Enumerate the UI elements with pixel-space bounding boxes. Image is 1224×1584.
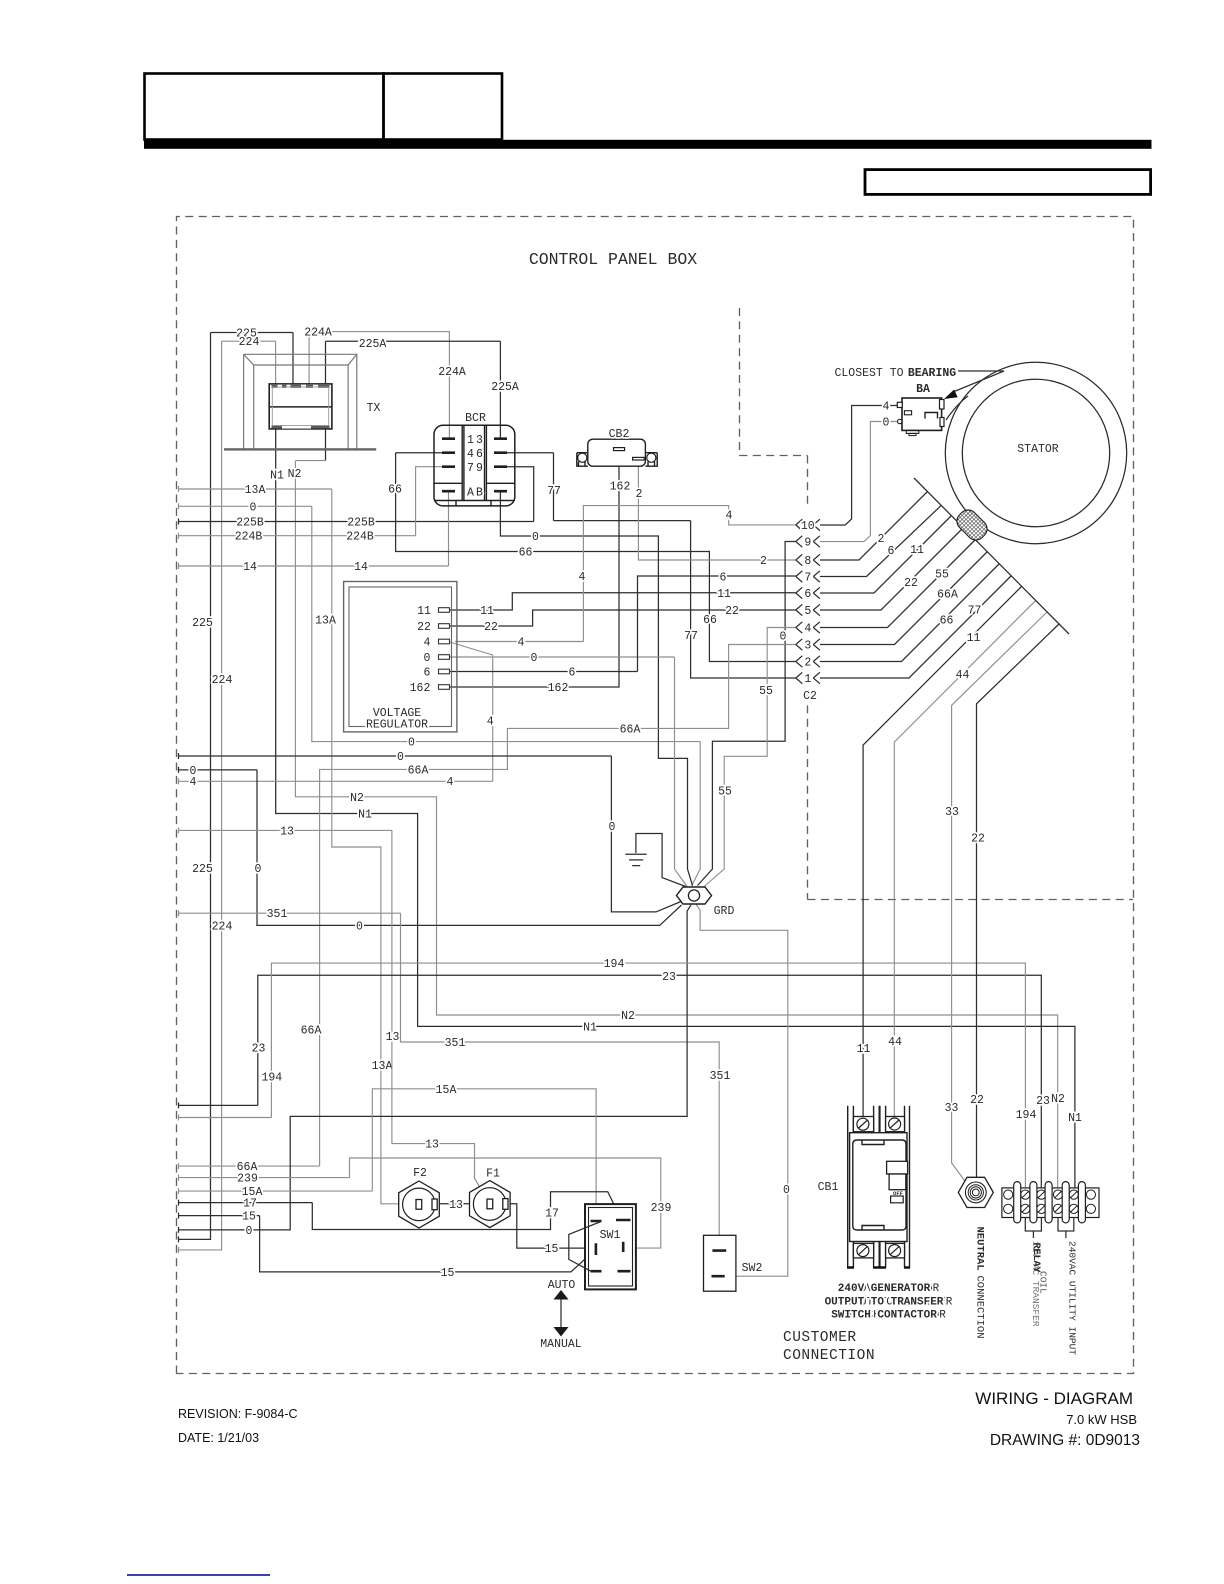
svg-text:162: 162 xyxy=(610,480,631,493)
svg-text:N1: N1 xyxy=(583,1021,597,1034)
svg-text:DATE: 1/21/03: DATE: 1/21/03 xyxy=(178,1431,259,1445)
svg-text:66: 66 xyxy=(940,615,954,628)
svg-text:23: 23 xyxy=(252,1043,266,1056)
svg-text:13: 13 xyxy=(386,1031,400,1044)
svg-text:SW1: SW1 xyxy=(600,1229,621,1242)
svg-text:77: 77 xyxy=(547,485,561,498)
svg-text:0: 0 xyxy=(608,821,615,834)
svg-text:225B: 225B xyxy=(347,517,375,530)
svg-text:0: 0 xyxy=(532,531,539,544)
empty title-block box top right xyxy=(865,170,1151,195)
svg-text:OUTPUT TO TRANSFER: OUTPUT TO TRANSFER xyxy=(825,1297,944,1309)
svg-text:6: 6 xyxy=(424,667,431,680)
wire net 14 xyxy=(178,491,449,574)
svg-text:240V GENERATOR: 240V GENERATOR xyxy=(838,1283,931,1295)
svg-text:CLOSEST TO: CLOSEST TO xyxy=(834,367,903,380)
svg-text:GRD: GRD xyxy=(714,905,735,918)
svg-text:224A: 224A xyxy=(438,366,466,379)
svg-text:RELAY: RELAY xyxy=(1030,1243,1041,1273)
shaft arc near bearing xyxy=(946,396,968,420)
circuit breaker CB1 xyxy=(847,1106,910,1268)
svg-text:9: 9 xyxy=(804,537,811,550)
svg-text:15A: 15A xyxy=(436,1084,457,1097)
connector C2 pin numbers xyxy=(801,520,815,686)
stator fan wire 2 xyxy=(820,492,928,561)
header table box 2 xyxy=(384,74,503,140)
wire net 13 xyxy=(178,825,488,1200)
svg-text:4: 4 xyxy=(883,401,890,414)
svg-text:77: 77 xyxy=(684,630,698,643)
svg-text:13: 13 xyxy=(425,1139,439,1152)
svg-text:2: 2 xyxy=(878,533,885,546)
wire net 0 regulator bus xyxy=(178,501,700,886)
svg-text:11: 11 xyxy=(910,544,924,557)
neutral connection stud (hex) xyxy=(958,1177,993,1207)
svg-text:17: 17 xyxy=(545,1208,559,1221)
svg-text:66: 66 xyxy=(703,614,717,627)
svg-text:10: 10 xyxy=(801,520,815,533)
svg-text:194: 194 xyxy=(604,958,625,971)
ground symbol xyxy=(625,834,687,888)
svg-text:N1: N1 xyxy=(1068,1112,1082,1125)
wire net 351 xyxy=(178,908,730,1250)
fuse F2 xyxy=(399,1181,440,1228)
svg-text:66A: 66A xyxy=(408,764,429,777)
svg-text:13A: 13A xyxy=(315,614,336,627)
svg-text:CB1: CB1 xyxy=(818,1181,839,1194)
svg-text:224A: 224A xyxy=(304,327,332,340)
wire net N2 xyxy=(288,461,1065,1190)
wire net 0 lower ground run xyxy=(178,765,682,934)
wire net 239 xyxy=(178,1158,671,1248)
wire net 225 xyxy=(178,328,293,1243)
svg-text:225A: 225A xyxy=(359,338,387,351)
wire net 55 xyxy=(703,628,796,888)
svg-text:13: 13 xyxy=(449,1199,463,1212)
svg-text:0: 0 xyxy=(783,1184,790,1197)
svg-text:0: 0 xyxy=(424,652,431,665)
transformer TX base line xyxy=(224,448,376,450)
wire net 15A xyxy=(178,1084,596,1221)
wire net 0 from BCR pin B xyxy=(500,491,692,885)
connector CB2 body xyxy=(577,439,657,466)
svg-text:6: 6 xyxy=(569,667,576,680)
CB1 caption ghost print xyxy=(834,1283,953,1322)
BCR pin number labels xyxy=(467,434,483,500)
wire net 224B xyxy=(178,467,442,544)
svg-text:11: 11 xyxy=(717,588,731,601)
svg-text:CUSTOMER: CUSTOMER xyxy=(783,1330,857,1346)
svg-text:11: 11 xyxy=(417,605,431,618)
svg-text:22: 22 xyxy=(417,621,431,634)
wire net 23 xyxy=(178,971,1050,1190)
svg-text:22: 22 xyxy=(971,833,985,846)
svg-text:351: 351 xyxy=(710,1070,731,1083)
svg-text:33: 33 xyxy=(945,806,959,819)
svg-text:225A: 225A xyxy=(491,381,519,394)
svg-text:22: 22 xyxy=(484,621,498,634)
svg-text:17: 17 xyxy=(243,1198,257,1211)
svg-text:SWITCH CONTACTOR: SWITCH CONTACTOR xyxy=(831,1310,937,1322)
svg-text:6: 6 xyxy=(720,572,727,585)
wire net 224 xyxy=(178,336,276,1253)
svg-text:3: 3 xyxy=(804,640,811,653)
svg-text:C2: C2 xyxy=(803,690,817,703)
svg-text:N2: N2 xyxy=(288,468,302,481)
svg-text:225B: 225B xyxy=(236,517,264,530)
svg-text:F1: F1 xyxy=(486,1168,500,1181)
wire net 6 xyxy=(450,572,796,680)
svg-text:224: 224 xyxy=(212,674,233,687)
wire net 0 brush assembly BA xyxy=(820,417,898,542)
wire net 17 xyxy=(178,1192,622,1230)
svg-text:BA: BA xyxy=(916,383,930,396)
svg-text:4: 4 xyxy=(190,776,197,789)
wire net 0 to ground symbol xyxy=(178,751,681,912)
svg-text:6: 6 xyxy=(888,545,895,558)
svg-text:0: 0 xyxy=(408,737,415,750)
terminal block bracket relay coil xyxy=(1025,1218,1041,1239)
svg-text:4: 4 xyxy=(804,623,811,636)
wire net 224A xyxy=(304,327,466,439)
svg-text:0: 0 xyxy=(255,863,262,876)
AUTO / MANUAL selector arrows xyxy=(540,1279,582,1351)
wire net 11 xyxy=(450,588,796,618)
stator fan wire 6 xyxy=(820,505,941,576)
terminal block bracket utility input xyxy=(1058,1218,1074,1239)
svg-text:MANUAL: MANUAL xyxy=(540,1338,582,1351)
svg-text:SW2: SW2 xyxy=(742,1262,763,1275)
svg-text:CONNECTION: CONNECTION xyxy=(783,1348,875,1364)
svg-text:4: 4 xyxy=(518,637,525,650)
svg-text:NEUTRAL: NEUTRAL xyxy=(974,1227,986,1271)
svg-text:15: 15 xyxy=(242,1211,256,1224)
svg-text:15: 15 xyxy=(545,1243,559,1256)
decorative blue underline xyxy=(127,1574,270,1576)
svg-text:AUTO: AUTO xyxy=(548,1279,576,1292)
svg-text:351: 351 xyxy=(445,1037,466,1050)
svg-text:4: 4 xyxy=(467,448,474,461)
svg-text:6: 6 xyxy=(804,588,811,601)
svg-text:13A: 13A xyxy=(372,1060,393,1073)
svg-text:B: B xyxy=(476,487,483,500)
transformer TX frame xyxy=(244,354,357,449)
wire net 15 bus xyxy=(178,1211,596,1280)
note CLOSEST TO BEARING with arrow xyxy=(834,367,1004,399)
svg-text:15: 15 xyxy=(441,1267,455,1280)
svg-text:7: 7 xyxy=(804,572,811,585)
wire net 162 xyxy=(450,451,631,696)
svg-text:44: 44 xyxy=(956,669,970,682)
stator outer ring xyxy=(945,362,1126,543)
svg-text:11: 11 xyxy=(967,632,981,645)
svg-text:2: 2 xyxy=(636,488,643,501)
svg-text:33: 33 xyxy=(945,1102,959,1115)
svg-text:13: 13 xyxy=(280,825,294,838)
CB1 caption 240V GENERATOR OUTPUT TO TRANSFER SWITCH CONTACTOR xyxy=(825,1283,944,1322)
svg-text:11: 11 xyxy=(480,605,494,618)
cable entry blob (hatched grommet) xyxy=(953,506,990,543)
wire net 0 ground to SW2 xyxy=(696,904,791,1277)
svg-text:4: 4 xyxy=(487,716,494,729)
svg-text:COIL: COIL xyxy=(1038,1271,1049,1294)
svg-text:0: 0 xyxy=(356,920,363,933)
svg-text:44: 44 xyxy=(888,1036,902,1049)
svg-text:F2: F2 xyxy=(413,1167,427,1180)
wire net 225A xyxy=(326,338,519,461)
terminal block TB xyxy=(1002,1182,1099,1223)
wire net 2 xyxy=(636,460,796,568)
voltage regulator U1 box xyxy=(344,582,457,732)
stator inner ring xyxy=(962,379,1109,526)
svg-text:4: 4 xyxy=(424,637,431,650)
svg-text:1: 1 xyxy=(467,434,474,447)
wire net 15 fuse F1 to SW1 xyxy=(508,1204,590,1256)
svg-text:351: 351 xyxy=(267,908,288,921)
svg-text:14: 14 xyxy=(243,561,257,574)
svg-text:224B: 224B xyxy=(235,531,263,544)
svg-text:225: 225 xyxy=(192,863,213,876)
wire net 22 stator to neutral stud xyxy=(970,624,1059,1183)
svg-text:0: 0 xyxy=(883,417,890,430)
wire net 66 xyxy=(388,453,796,662)
label CUSTOMER CONNECTION xyxy=(783,1330,875,1364)
svg-text:239: 239 xyxy=(237,1173,258,1186)
stator fan wire 55 xyxy=(820,540,976,628)
svg-text:162: 162 xyxy=(410,682,431,695)
svg-text:55: 55 xyxy=(718,786,732,799)
svg-text:N1: N1 xyxy=(358,809,372,822)
svg-text:66A: 66A xyxy=(301,1024,322,1037)
voltage regulator pin numbers xyxy=(410,605,431,695)
dashed notch boundary around stator xyxy=(740,308,1134,900)
svg-text:7.0 kW HSB: 7.0 kW HSB xyxy=(1066,1412,1137,1427)
connector C2 column: chevrons xyxy=(796,519,820,684)
stator fan wire 22 xyxy=(820,528,964,611)
BCR pin dashes right column (3,6,9,B) xyxy=(494,439,507,492)
SW1 pin dashes xyxy=(591,1220,631,1271)
svg-text:4: 4 xyxy=(726,510,733,523)
svg-text:8: 8 xyxy=(804,555,811,568)
svg-text:13A: 13A xyxy=(245,484,266,497)
svg-text:REVISION: F-9084-C: REVISION: F-9084-C xyxy=(178,1407,297,1421)
wire net 13 fuse link F2-F1 xyxy=(437,1199,487,1212)
svg-text:194: 194 xyxy=(261,1072,282,1085)
svg-text:A: A xyxy=(467,487,474,500)
wire net 11 stator to CB1 xyxy=(857,586,1022,1118)
svg-text:0: 0 xyxy=(250,501,257,514)
ground node GRD hex nut xyxy=(677,887,712,904)
svg-text:1: 1 xyxy=(804,673,811,686)
stator fan wire 11 xyxy=(820,516,952,594)
svg-text:55: 55 xyxy=(759,685,773,698)
svg-text:N2: N2 xyxy=(350,792,364,805)
header table box 1 xyxy=(145,74,384,140)
SW1 internal linkage xyxy=(569,1222,601,1272)
svg-text:BCR: BCR xyxy=(465,412,486,425)
harness cable line into stator xyxy=(914,478,1069,634)
wire net 13A xyxy=(178,484,416,1204)
BCR pin dashes left column (1,4,7,A) xyxy=(442,439,455,492)
svg-text:22: 22 xyxy=(970,1094,984,1107)
svg-text:REGULATOR: REGULATOR xyxy=(366,719,428,732)
svg-text:N2: N2 xyxy=(621,1010,635,1023)
svg-text:3: 3 xyxy=(476,434,483,447)
svg-text:0: 0 xyxy=(531,652,538,665)
svg-text:239: 239 xyxy=(651,1202,672,1215)
label transfer relay coil (rotated, double printed) xyxy=(1030,1241,1049,1327)
switch SW1 body xyxy=(585,1204,636,1289)
svg-text:11: 11 xyxy=(857,1043,871,1056)
svg-text:22: 22 xyxy=(904,577,918,590)
svg-text:6: 6 xyxy=(476,448,483,461)
svg-text:55: 55 xyxy=(935,569,949,582)
svg-text:22: 22 xyxy=(725,605,739,618)
svg-text:66A: 66A xyxy=(620,723,641,736)
svg-text:N1: N1 xyxy=(270,469,284,482)
svg-text:224: 224 xyxy=(212,921,233,934)
svg-text:4: 4 xyxy=(579,571,586,584)
svg-text:STATOR: STATOR xyxy=(1017,443,1059,456)
wire net 0 from connector C2 pin 9 xyxy=(698,542,796,886)
wire net 22 xyxy=(450,605,796,634)
wire net 44 stator to CB1 xyxy=(888,600,1036,1118)
stator fan wire 66 xyxy=(820,564,1000,662)
svg-text:0: 0 xyxy=(397,751,404,764)
wire net 4 brush assembly BA xyxy=(820,401,897,526)
svg-text:N2: N2 xyxy=(1051,1093,1065,1106)
wire net 225B xyxy=(178,467,534,530)
svg-text:BEARING: BEARING xyxy=(908,367,956,380)
SW2 pin dashes xyxy=(712,1251,727,1277)
svg-text:66: 66 xyxy=(519,547,533,560)
transformer TX winding xyxy=(269,384,332,429)
svg-text:0: 0 xyxy=(780,630,787,643)
svg-text:TX: TX xyxy=(367,402,381,415)
svg-text:14: 14 xyxy=(354,561,368,574)
switch SW2 body xyxy=(704,1235,736,1291)
svg-text:WIRING - DIAGRAM: WIRING - DIAGRAM xyxy=(975,1389,1133,1408)
wire net 4 xyxy=(178,506,796,789)
svg-text:224B: 224B xyxy=(346,531,374,544)
svg-text:CONNECTION: CONNECTION xyxy=(974,1276,986,1339)
control panel box dashed boundary xyxy=(177,217,1134,1374)
svg-text:77: 77 xyxy=(968,605,982,618)
svg-text:DRAWING #: 0D9013: DRAWING #: 0D9013 xyxy=(990,1432,1140,1449)
svg-text:240VAC UTILITY INPUT: 240VAC UTILITY INPUT xyxy=(1067,1241,1078,1355)
wire net 0 ground to lower-left xyxy=(178,905,691,1238)
voltage regulator pin terminals xyxy=(439,608,450,690)
svg-text:4: 4 xyxy=(447,776,454,789)
svg-text:194: 194 xyxy=(1016,1109,1037,1122)
wire net 33 stator to neutral stud xyxy=(945,612,1048,1185)
svg-text:9: 9 xyxy=(476,462,483,475)
svg-text:CONTROL PANEL BOX: CONTROL PANEL BOX xyxy=(529,250,697,269)
svg-text:0: 0 xyxy=(190,765,197,778)
svg-text:0: 0 xyxy=(246,1225,253,1238)
header thick rule bar xyxy=(144,140,1152,149)
svg-text:225: 225 xyxy=(192,617,213,630)
wire net N1 xyxy=(270,429,1082,1190)
fuse F1 xyxy=(470,1181,511,1228)
svg-text:66: 66 xyxy=(388,483,402,496)
stator fan wire 77 xyxy=(820,576,1012,679)
svg-text:7: 7 xyxy=(467,462,474,475)
wire net 66A xyxy=(178,645,796,1175)
brush assembly BA body xyxy=(897,398,944,436)
svg-text:2: 2 xyxy=(760,555,767,568)
relay board BCR body xyxy=(434,425,515,506)
svg-text:5: 5 xyxy=(804,605,811,618)
label NEUTRAL CONNECTION (rotated) xyxy=(974,1227,986,1339)
svg-text:23: 23 xyxy=(1036,1095,1050,1108)
wire net 77 xyxy=(507,453,796,678)
svg-text:162: 162 xyxy=(548,682,569,695)
svg-text:CB2: CB2 xyxy=(609,428,630,441)
svg-text:2: 2 xyxy=(804,657,811,670)
svg-text:224: 224 xyxy=(239,336,260,349)
wire net 194 xyxy=(178,958,1036,1190)
stator fan wire 66A xyxy=(820,552,988,645)
svg-text:23: 23 xyxy=(662,971,676,984)
svg-text:66A: 66A xyxy=(937,589,958,602)
wire net 0 from regulator pin 0 xyxy=(450,652,688,887)
